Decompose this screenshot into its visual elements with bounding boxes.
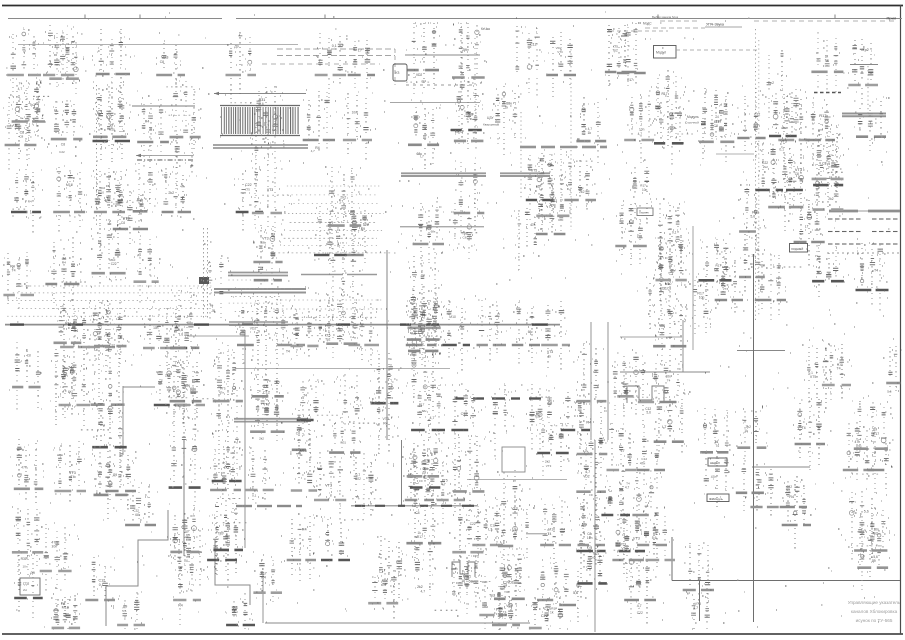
resistor group A105 xyxy=(411,537,436,596)
capacitor group A38 xyxy=(544,32,576,97)
filter network A24 xyxy=(793,198,825,266)
filter network 94 xyxy=(812,123,844,202)
amplifier stage A17 xyxy=(175,361,205,424)
transistor stage A76 xyxy=(715,257,743,313)
amplifier stage A45 xyxy=(847,39,878,105)
resistor group 24 xyxy=(169,396,201,502)
divider chain A84 xyxy=(636,427,665,489)
coil group A55 xyxy=(315,29,347,98)
amplifier stage A32 xyxy=(856,243,889,311)
filter network 91 xyxy=(811,32,844,92)
svg-text:4,7: 4,7 xyxy=(638,132,643,136)
svg-text:Т4: Т4 xyxy=(837,367,841,371)
filter network A50 xyxy=(564,155,596,214)
coil group A57 xyxy=(156,33,185,85)
svg-text:С8: С8 xyxy=(415,511,419,515)
filter network A53 xyxy=(784,148,808,215)
amplifier stage 67 xyxy=(576,342,606,410)
divider chain A131 xyxy=(492,591,520,630)
divider chain 92 xyxy=(811,155,844,230)
svg-text:Т4: Т4 xyxy=(825,59,829,63)
svg-text:СЖМодуль: СЖМодуль xyxy=(709,497,724,501)
coil group A98 xyxy=(275,300,305,355)
coil group 48 xyxy=(406,23,440,94)
resistor group A118 xyxy=(225,593,255,629)
svg-text:2k2: 2k2 xyxy=(545,460,550,464)
transistor stage 12 xyxy=(93,82,126,146)
resistor group 43 xyxy=(369,359,398,411)
amplifier stage 28 xyxy=(213,345,244,416)
transistor stage A123 xyxy=(452,555,485,608)
svg-text:Д9: Д9 xyxy=(30,570,35,575)
svg-text:М10: М10 xyxy=(449,315,456,319)
wire dotted xyxy=(96,85,98,225)
coil group A4 xyxy=(3,96,40,170)
svg-text:L7: L7 xyxy=(358,49,362,53)
capacitor group A43 xyxy=(778,90,810,166)
square wave wire xyxy=(627,386,664,403)
svg-text:С22: С22 xyxy=(637,611,643,615)
resistor group A15 xyxy=(154,356,187,412)
svg-text:47н: 47н xyxy=(381,583,386,587)
diode pair 34 xyxy=(250,294,284,417)
resistor group A132 xyxy=(542,596,571,629)
wire vertical frame xyxy=(262,575,264,623)
transistor stage 20 xyxy=(132,237,161,303)
capacitor group 30 xyxy=(250,86,284,144)
diode pair 40 xyxy=(326,167,362,249)
amplifier stage A51 xyxy=(626,160,652,224)
top header labels xyxy=(610,15,705,31)
svg-text:C12: C12 xyxy=(461,412,468,416)
divider chain 36 xyxy=(253,552,282,602)
svg-text:С8: С8 xyxy=(714,268,718,272)
svg-text:2k2: 2k2 xyxy=(763,165,768,169)
divider chain 4 xyxy=(12,439,44,503)
svg-text:5,6: 5,6 xyxy=(887,389,892,393)
svg-text:68к: 68к xyxy=(431,229,436,233)
pin table 1 xyxy=(828,219,861,244)
filter network A63 xyxy=(345,210,372,263)
svg-text:R4: R4 xyxy=(145,120,150,124)
label УПЧ-Звука xyxy=(705,23,742,28)
svg-text:Управляющие указатель: Управляющие указатель xyxy=(848,600,901,605)
amplifier stage A23 xyxy=(658,199,685,269)
svg-text:1k: 1k xyxy=(299,453,303,457)
amplifier stage A34 xyxy=(867,427,894,493)
svg-text:47н: 47н xyxy=(640,461,646,465)
transistor stage A16 xyxy=(59,358,91,426)
svg-text:VT3: VT3 xyxy=(506,604,512,608)
svg-text:МодС: МодС xyxy=(643,22,652,26)
svg-text:С8: С8 xyxy=(27,354,31,358)
filter network A87 xyxy=(402,455,434,515)
capacitor group A64 xyxy=(412,201,444,265)
wire xyxy=(590,322,592,440)
diode pair A21 xyxy=(124,482,156,525)
svg-text:4,7: 4,7 xyxy=(637,604,642,608)
svg-text:4,7: 4,7 xyxy=(430,416,435,420)
svg-text:10n: 10n xyxy=(587,536,593,540)
wire with arrow above transformer xyxy=(214,92,306,96)
transformer T2 windings xyxy=(213,145,308,148)
svg-text:0,1: 0,1 xyxy=(99,583,104,587)
svg-text:каналов Хблокировка: каналов Хблокировка xyxy=(851,609,898,614)
svg-text:4,7: 4,7 xyxy=(693,606,698,610)
svg-text:68к: 68к xyxy=(184,384,190,388)
bars row mid-left lower xyxy=(236,505,302,507)
bars row dark xyxy=(455,397,541,399)
svg-text:47н: 47н xyxy=(711,475,717,479)
capacitor group A26 xyxy=(822,344,851,400)
amplifier stage A39 xyxy=(605,25,636,86)
svg-text:С8: С8 xyxy=(160,60,164,64)
svg-text:С8: С8 xyxy=(19,135,23,139)
resistor group A85 xyxy=(313,452,346,520)
module box U1 xyxy=(393,64,407,81)
svg-text:VT3: VT3 xyxy=(781,140,787,144)
filter network A107 xyxy=(495,556,522,619)
svg-text:47н: 47н xyxy=(21,466,27,470)
taps on bus bars row xyxy=(355,505,474,507)
svg-text:0,1: 0,1 xyxy=(786,489,791,493)
capacitor group A22 xyxy=(615,204,647,265)
svg-text:10n: 10n xyxy=(699,296,705,300)
svg-text:Д9: Д9 xyxy=(462,48,467,52)
diode pair A25 xyxy=(802,340,834,403)
svg-text:R4: R4 xyxy=(315,146,319,150)
svg-text:VD2: VD2 xyxy=(250,327,257,331)
resistor group A114 xyxy=(171,557,201,625)
amplifier stage A93 xyxy=(612,514,644,578)
filter network 68 xyxy=(574,401,608,468)
wire xyxy=(400,226,484,228)
diode pair 75 xyxy=(654,101,690,165)
svg-text:Д9: Д9 xyxy=(137,253,141,257)
wire xyxy=(526,533,547,535)
svg-text:Прил: Прил xyxy=(887,16,897,21)
transistor stage 29 xyxy=(211,495,244,575)
capacitor group A28 xyxy=(636,361,667,425)
wire horizontal segment xyxy=(18,44,298,46)
resistor group 49 xyxy=(406,286,444,353)
svg-text:КТ5: КТ5 xyxy=(245,187,251,191)
divider chain A6 xyxy=(135,96,169,167)
amplifier stage A75 xyxy=(689,274,711,334)
wire loop rectangle xyxy=(502,447,525,472)
capacitor group A121 xyxy=(637,502,667,567)
svg-text:4,7: 4,7 xyxy=(18,87,23,91)
svg-text:VT3: VT3 xyxy=(511,507,517,511)
transistor stage A67 xyxy=(314,293,348,342)
svg-text:5,6: 5,6 xyxy=(103,140,108,144)
transistor stage 70 xyxy=(576,490,606,568)
coil group 3 xyxy=(9,84,45,144)
svg-text:5,6: 5,6 xyxy=(652,536,657,540)
capacitor group A81 xyxy=(526,384,555,450)
capacitor group 57 xyxy=(454,158,485,232)
coil group A99 xyxy=(143,302,174,366)
svg-text:С8: С8 xyxy=(795,172,799,176)
capacitor group 76 xyxy=(653,228,690,298)
svg-text:L7: L7 xyxy=(662,425,666,429)
svg-text:ХОДНЫЙ: ХОДНЫЙ xyxy=(791,247,803,251)
filter network 83 xyxy=(701,451,734,507)
resistor group 53 xyxy=(406,493,442,558)
filter network A46 xyxy=(767,50,791,118)
dashed wire from module xyxy=(676,49,760,51)
connector ladder block A xyxy=(277,186,392,253)
wire xyxy=(716,153,754,155)
svg-text:Тр2: Тр2 xyxy=(70,370,76,374)
amplifier stage A72 xyxy=(510,302,540,364)
coil group A119 xyxy=(174,529,209,586)
diode pair 80 xyxy=(699,88,735,162)
filter network A68 xyxy=(348,300,379,365)
svg-text:0,1: 0,1 xyxy=(252,493,257,497)
svg-text:68к: 68к xyxy=(582,523,588,527)
svg-text:Д9: Д9 xyxy=(234,44,238,48)
svg-text:Т4: Т4 xyxy=(12,269,16,273)
capacitor group A29 xyxy=(658,362,686,409)
svg-text:С8: С8 xyxy=(121,221,125,225)
resistor group A101 xyxy=(297,375,325,434)
transformer T1 winding block xyxy=(220,106,300,136)
amplifier stage 95 xyxy=(812,124,843,186)
divider chain 32 xyxy=(253,228,283,305)
wire xyxy=(620,336,682,338)
diode pair A40 xyxy=(653,70,686,146)
winding pair mid-left xyxy=(234,419,308,422)
resistor group A66 xyxy=(514,208,546,270)
coil group A7 xyxy=(53,163,87,232)
wire xyxy=(671,537,673,581)
coil group 25 xyxy=(169,504,200,570)
wire xyxy=(594,440,596,632)
wire xyxy=(737,350,785,352)
switch box xyxy=(637,208,653,216)
transistor stage A19 xyxy=(105,445,137,510)
resistor group A56 xyxy=(346,36,375,89)
svg-text:С22: С22 xyxy=(59,150,65,154)
svg-text:R4: R4 xyxy=(383,421,387,425)
capacitor group A127 xyxy=(601,481,630,529)
capacitor group A11 xyxy=(45,237,81,309)
svg-text:С22: С22 xyxy=(355,477,361,481)
divider chain 27 xyxy=(211,388,244,489)
filter network A106 xyxy=(445,556,475,614)
label box module A xyxy=(708,458,727,466)
svg-text:47н: 47н xyxy=(466,117,472,121)
filter network A74 xyxy=(646,272,678,329)
ladder rows mid xyxy=(228,280,287,311)
svg-text:VD2: VD2 xyxy=(583,474,590,478)
wire xyxy=(672,580,900,582)
amplifier stage A58 xyxy=(303,90,336,153)
divider chain 96 xyxy=(854,98,890,151)
capacitor group 89 xyxy=(768,89,802,152)
capacitor group 2 xyxy=(10,79,46,160)
svg-text:УПЧ-Звука: УПЧ-Звука xyxy=(706,23,724,27)
svg-text:L7: L7 xyxy=(621,449,625,453)
coil group 47 xyxy=(408,100,441,169)
amplifier stage A111 xyxy=(284,514,318,581)
svg-text:R4: R4 xyxy=(178,604,183,608)
wire xyxy=(390,102,480,104)
dash row top right xyxy=(754,20,898,22)
svg-text:М10: М10 xyxy=(66,183,73,187)
resistor group A13 xyxy=(60,301,91,373)
transistor stage A48 xyxy=(490,84,522,155)
transistor stage 78 xyxy=(654,392,691,453)
ladder cap lines xyxy=(301,274,377,276)
svg-text:1k: 1k xyxy=(505,106,509,110)
divider chain 54 xyxy=(407,300,443,359)
svg-text:С8: С8 xyxy=(667,286,671,290)
filter network A100 xyxy=(170,306,196,372)
amplifier stage A37 xyxy=(515,26,542,96)
svg-text:Т4: Т4 xyxy=(303,394,307,398)
wire xyxy=(123,386,155,388)
filter network 45 xyxy=(370,353,400,454)
wire to IF module xyxy=(405,54,480,56)
coil group 8 xyxy=(51,100,83,154)
svg-text:1k: 1k xyxy=(751,254,755,258)
svg-text:2k2: 2k2 xyxy=(579,190,585,194)
svg-text:Тр2: Тр2 xyxy=(325,338,331,342)
svg-text:68к: 68к xyxy=(422,409,427,413)
svg-text:R4: R4 xyxy=(261,576,266,580)
svg-text:5,6: 5,6 xyxy=(573,591,578,595)
svg-text:Тр2: Тр2 xyxy=(872,532,878,536)
svg-text:2k2: 2k2 xyxy=(224,465,230,469)
svg-text:47н: 47н xyxy=(219,391,224,395)
coil group A82 xyxy=(561,390,590,449)
svg-text:VD2: VD2 xyxy=(507,580,513,584)
resistor group A96 xyxy=(201,256,231,319)
svg-text:R4: R4 xyxy=(789,495,794,499)
svg-text:R17: R17 xyxy=(662,92,668,96)
svg-text:Д9: Д9 xyxy=(113,473,118,477)
svg-text:R17: R17 xyxy=(419,402,425,406)
divider chain A14 xyxy=(86,303,116,372)
wire xyxy=(122,386,124,455)
wire xyxy=(265,622,530,624)
diode pair A90 xyxy=(506,499,535,558)
coil group 59 xyxy=(452,508,483,576)
svg-text:С22: С22 xyxy=(470,522,476,526)
svg-text:Строчной: Строчной xyxy=(685,121,699,125)
svg-text:С8: С8 xyxy=(61,143,65,147)
transistor stage 74 xyxy=(617,505,645,574)
label box module B xyxy=(707,494,729,502)
pin table dots row xyxy=(827,252,900,254)
ground bus segment xyxy=(229,322,288,325)
svg-text:L7: L7 xyxy=(340,200,344,204)
amplifier stage A130 xyxy=(780,476,807,525)
line with end bars right xyxy=(829,210,900,212)
capacitor group 52 xyxy=(410,449,440,507)
filter network A77 xyxy=(755,254,786,320)
dashed row xyxy=(406,84,477,86)
filter network 37 xyxy=(290,311,319,357)
svg-text:R4: R4 xyxy=(210,303,214,307)
divider chain A59 xyxy=(342,92,373,160)
svg-text:4,7: 4,7 xyxy=(625,486,630,490)
svg-text:VT3: VT3 xyxy=(633,537,640,541)
wire dotted xyxy=(755,29,757,320)
wire xyxy=(753,254,755,622)
gray link line xyxy=(132,105,195,107)
coil group 17 xyxy=(91,445,128,519)
winding pair left upper xyxy=(228,273,288,276)
svg-text:68к: 68к xyxy=(135,513,141,517)
transistor stage A103 xyxy=(337,374,365,431)
diode pair A27 xyxy=(607,361,636,415)
svg-text:68к: 68к xyxy=(786,180,792,184)
bars row mid right xyxy=(520,146,607,149)
capacitor group A88 xyxy=(437,454,465,524)
amplifier stage 33 xyxy=(253,224,282,270)
transistor stage 98 xyxy=(852,396,892,457)
pin table 2 xyxy=(872,219,898,244)
svg-text:Модул: Модул xyxy=(656,51,666,55)
svg-text:КТ5: КТ5 xyxy=(810,375,816,379)
diode pair 93 xyxy=(812,245,845,297)
resistor group 58 xyxy=(453,436,486,511)
capacitor group 90 xyxy=(768,158,803,231)
diode pair A30 xyxy=(794,398,827,470)
winding pair left lower xyxy=(214,289,306,293)
svg-text:5,6: 5,6 xyxy=(122,609,127,613)
svg-text:0,1: 0,1 xyxy=(233,604,238,609)
coil group A122 xyxy=(687,588,710,629)
wire xyxy=(401,440,403,506)
wire xyxy=(187,335,249,337)
svg-text:VT3: VT3 xyxy=(263,403,269,407)
svg-text:исунок по ТУ-565: исунок по ТУ-565 xyxy=(856,618,893,623)
amplifier stage A61 xyxy=(234,168,263,231)
svg-text:68к: 68к xyxy=(422,313,428,317)
amplifier stage 87 xyxy=(736,458,767,511)
svg-text:Т4: Т4 xyxy=(71,475,75,479)
amplifier stage A116 xyxy=(53,594,76,629)
diode pair 97 xyxy=(857,520,888,590)
svg-text:Тр2: Тр2 xyxy=(218,532,224,536)
filter network A1 xyxy=(6,28,42,92)
resistor group A71 xyxy=(477,299,507,361)
transistor stage A47 xyxy=(451,81,484,149)
amplifier stage 23 xyxy=(167,356,202,417)
svg-text:С22: С22 xyxy=(754,112,760,116)
capacitor group 16 xyxy=(92,392,127,472)
capacitor group A70 xyxy=(440,299,471,371)
filter network 60 xyxy=(496,470,523,565)
filter network 18 xyxy=(91,214,127,284)
capacitor group 39 xyxy=(290,430,317,497)
svg-text:R31: R31 xyxy=(21,557,27,561)
svg-text:R4: R4 xyxy=(62,261,66,265)
coil group A49 xyxy=(524,154,556,223)
transistor stage 35 xyxy=(250,382,285,440)
coil group A79 xyxy=(451,384,482,449)
filter network A113 xyxy=(207,515,238,581)
amplifier stage 63 xyxy=(536,414,570,476)
svg-text:R17: R17 xyxy=(417,535,423,539)
diode pair 14 xyxy=(92,301,127,364)
svg-text:Модуль: Модуль xyxy=(687,115,699,119)
capacitor group 41 xyxy=(325,239,363,358)
